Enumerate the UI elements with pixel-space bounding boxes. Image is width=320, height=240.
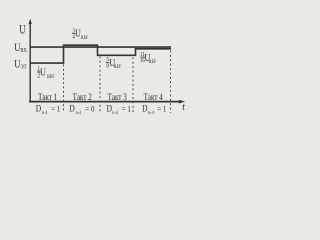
svg-text:U: U	[75, 28, 81, 40]
svg-text:REF: REF	[47, 75, 55, 81]
svg-text:REF: REF	[81, 36, 89, 42]
svg-text:= 1: = 1	[157, 104, 166, 114]
svg-text:n-2: n-2	[76, 110, 82, 116]
svg-text:D: D	[69, 102, 74, 113]
svg-text:ЭТ: ЭТ	[20, 64, 27, 71]
svg-text:U: U	[40, 67, 46, 79]
svg-text:D: D	[142, 102, 147, 113]
svg-text:D: D	[107, 102, 112, 113]
svg-text:Такт 4: Такт 4	[144, 91, 164, 102]
svg-text:D: D	[36, 102, 41, 113]
svg-text:REF: REF	[114, 65, 122, 71]
svg-text:= 0: = 0	[85, 104, 94, 114]
svg-text:ВХ: ВХ	[20, 47, 27, 54]
svg-text:n-4: n-4	[148, 110, 154, 116]
svg-text:Такт 3: Такт 3	[108, 91, 127, 102]
svg-text:REF: REF	[149, 60, 157, 66]
svg-text:Такт 1: Такт 1	[38, 91, 57, 102]
svg-text:= 1: = 1	[51, 104, 60, 114]
svg-text:n-3: n-3	[112, 110, 118, 116]
svg-text:U: U	[19, 23, 25, 37]
svg-text:n-1: n-1	[42, 110, 48, 116]
svg-text:= 1: = 1	[122, 104, 131, 114]
svg-text:t: t	[182, 102, 185, 114]
svg-text:Такт 2: Такт 2	[73, 91, 92, 102]
